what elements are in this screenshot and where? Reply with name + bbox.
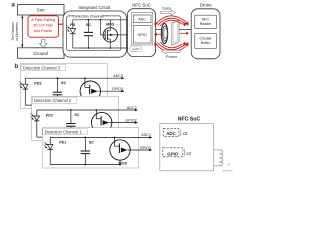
svg-text:SC: SC: [74, 113, 79, 117]
svg-text:antenna: antenna: [223, 169, 234, 173]
Drone box: [191, 9, 220, 59]
svg-text:Reader: Reader: [200, 22, 212, 26]
svg-text:SC: SC: [61, 81, 66, 85]
wire: top rail / ADC3 output: [25, 77, 122, 79]
double-headed distance arrow: [21, 17, 23, 47]
wire: bottom rail: [25, 104, 90, 106]
detection channel 3 box: [21, 64, 108, 109]
MOSFET MOS (part a): [103, 28, 117, 42]
wire: GPIO3 output: [98, 90, 123, 92]
detection channel 2 title box: [32, 97, 77, 103]
svg-text:ADC: ADC: [138, 18, 146, 22]
Integrated Circuit outer box: [63, 11, 127, 57]
detection channel 2 box: [32, 96, 119, 140]
svg-text:Circular: Circular: [199, 36, 212, 40]
MOSFET ch1: [110, 140, 130, 160]
svg-text:PD: PD: [70, 23, 75, 27]
svg-text:3D IoT Flier: 3D IoT Flier: [33, 23, 54, 28]
svg-text:Detection Channel 1: Detection Channel 1: [45, 130, 83, 135]
svg-text:GPIO: GPIO: [167, 151, 179, 156]
MOSFET ch1 source lead: [119, 160, 121, 164]
MOSFET ch3: [80, 81, 100, 101]
svg-text:PD1: PD1: [59, 141, 66, 145]
ADC x3 dashed box: [163, 128, 179, 136]
NFC SoC box (part b): [160, 124, 214, 171]
detection channel 1 title box: [43, 129, 88, 135]
svg-text:Detection Channel: Detection Channel: [73, 15, 104, 19]
svg-text:PD2: PD2: [46, 113, 53, 117]
wire: loop to Drone: [179, 28, 191, 30]
svg-text:MOS: MOS: [106, 23, 115, 27]
NFC coil (dark): [161, 24, 167, 44]
svg-text:NFC: NFC: [202, 17, 210, 21]
svg-text:Detection Channel 2: Detection Channel 2: [34, 98, 72, 103]
box Sun: [18, 5, 65, 16]
svg-text:UART: UART: [132, 47, 140, 51]
light arrows into PD2: [30, 113, 33, 116]
svg-text:SC: SC: [86, 23, 91, 27]
wire: GPIO1 output: [127, 149, 150, 151]
red flux arcs bottom: [156, 44, 188, 53]
GPIO box (part a): [133, 26, 151, 43]
Circular Buffer box: [195, 33, 217, 48]
MOSFET ch2 source lead: [101, 133, 103, 137]
storage capacitor SC ch2: [70, 110, 72, 124]
detection channel 1 box: [42, 128, 138, 168]
wire: top rail / ADC2 output: [37, 109, 136, 111]
svg-text:w/o Power: w/o Power: [34, 28, 53, 33]
NFC SoC box (part a): [128, 9, 156, 57]
UART box: [130, 46, 142, 51]
svg-text:ADC: ADC: [166, 131, 176, 136]
svg-text:ADC2: ADC2: [127, 106, 137, 110]
wire: bottom rail to UART: [110, 47, 131, 49]
svg-text:GPIO3: GPIO3: [112, 87, 123, 91]
ADC box (part a): [133, 15, 151, 23]
svg-text:NF: NF: [227, 163, 231, 167]
MOSFET ch3 source lead: [89, 101, 91, 105]
red mid flux arrows: [156, 33, 162, 35]
svg-text:ADC3: ADC3: [113, 74, 123, 78]
wire: bottom rail (part a): [73, 47, 111, 49]
svg-text:A Fast-Falling: A Fast-Falling: [31, 17, 55, 22]
svg-text:NFC SoC: NFC SoC: [132, 2, 151, 7]
svg-text:NFC SoC: NFC SoC: [178, 117, 201, 123]
svg-text:Data: Data: [162, 5, 171, 10]
wire: NFC SoC to coil: [156, 28, 162, 30]
red flux arcs top: [156, 16, 188, 25]
svg-text:Buffer: Buffer: [201, 41, 211, 45]
hollow down block arrow: [40, 39, 48, 47]
light arrows into PD1: [44, 142, 47, 145]
photodiode PD2: [36, 110, 38, 116]
svg-text:Sun: Sun: [37, 8, 45, 13]
storage capacitor SC ch3: [57, 78, 59, 92]
svg-text:Integrated Circuit: Integrated Circuit: [79, 5, 112, 10]
svg-text:GPIO2: GPIO2: [125, 118, 136, 122]
svg-text:MOS: MOS: [119, 162, 128, 166]
wire: GPIO connection to NFC SoC: [107, 34, 133, 36]
storage capacitor SC (part a): [87, 20, 89, 33]
storage capacitor SC ch1: [84, 137, 86, 151]
NFC SoC inner rect: [131, 13, 153, 45]
red arrow to integrated circuit: [59, 23, 64, 25]
svg-text:in Kilometers: in Kilometers: [15, 22, 19, 41]
GPIO x3 dashed box: [163, 148, 183, 157]
photodiode PD3: [24, 78, 26, 84]
label Power + hollow left arrow: [162, 49, 181, 54]
wire: bottom rail: [50, 164, 120, 166]
svg-text:x3: x3: [186, 151, 191, 156]
detection channel 3 title box: [21, 65, 66, 71]
wire: GPIO2 output: [109, 122, 136, 124]
svg-text:SC: SC: [89, 140, 94, 144]
svg-text:Ground: Ground: [33, 51, 48, 56]
wire: top rail / ADC1 output: [50, 136, 150, 138]
svg-text:ADC1: ADC1: [141, 133, 151, 137]
light arrows into PD3: [19, 81, 22, 84]
svg-text:Drone: Drone: [200, 2, 213, 7]
wire: ADC connection to NFC SoC: [110, 19, 133, 21]
svg-text:Power: Power: [166, 54, 178, 59]
MOSFET ch2: [92, 112, 112, 132]
box Ground: [18, 48, 65, 59]
annotation box: fast-falling flier (red): [28, 16, 59, 37]
wire: bottom rail: [37, 136, 102, 138]
NFC antenna coil: [214, 149, 220, 151]
svg-text:GPIO: GPIO: [137, 33, 146, 37]
photodiode PD1: [49, 137, 51, 144]
svg-text:GPIO1: GPIO1: [140, 146, 151, 150]
photodiode PD (part a): [72, 20, 74, 29]
Detection Channel box (part a): [67, 16, 121, 51]
light arrows into PD (part a): [66, 25, 69, 28]
NFC Reader box: [195, 15, 217, 28]
reader loop antenna (light): [172, 20, 179, 45]
svg-text:PD3: PD3: [34, 82, 41, 86]
svg-text:b: b: [15, 64, 19, 70]
svg-text:Detection Channel 3: Detection Channel 3: [23, 66, 61, 71]
wire: top rail (part a): [73, 19, 111, 21]
svg-text:x3: x3: [183, 131, 188, 136]
junction dots (part a rails): [88, 19, 90, 21]
